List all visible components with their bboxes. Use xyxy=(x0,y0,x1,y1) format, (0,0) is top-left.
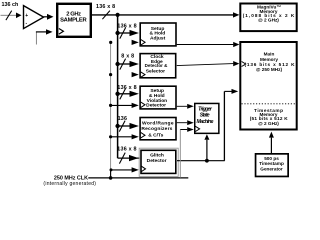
junction tap5 xyxy=(115,124,119,128)
svg-text:Recognizers: Recognizers xyxy=(141,126,172,132)
wire glitch output xyxy=(177,160,225,162)
svg-text:8 x 8: 8 x 8 xyxy=(121,53,134,59)
junction tap3 xyxy=(115,62,119,66)
svg-text:Selector: Selector xyxy=(146,69,165,75)
wire main bus 136x8 xyxy=(92,14,234,16)
wire tap6 elbow xyxy=(118,157,140,159)
svg-text:@ 2 GHz): @ 2 GHz) xyxy=(258,121,279,126)
arrowhead violation to trigger xyxy=(187,104,194,109)
svg-text:(internally generated): (internally generated) xyxy=(43,181,96,187)
wire elbow to memory xyxy=(224,90,231,92)
wire amp to sampler xyxy=(44,16,47,18)
svg-text:Detector &: Detector & xyxy=(145,63,169,68)
junction clock tap adjust xyxy=(109,41,112,44)
arrowhead into MagniVu memory xyxy=(233,12,239,17)
block setup and hold adjust xyxy=(140,23,176,46)
arrowhead into main memory clock xyxy=(233,61,239,66)
op-amp U1 input amplifier xyxy=(24,6,44,29)
junction main bus xyxy=(116,13,120,17)
arrowhead clock adjust xyxy=(132,40,139,45)
svg-text:136 x 8: 136 x 8 xyxy=(117,85,136,91)
wire glitch output up to memory xyxy=(223,91,225,160)
arrowhead word to trigger xyxy=(187,120,194,125)
arrowhead clock glitch xyxy=(132,167,139,172)
wire clock word xyxy=(111,136,132,138)
arrowhead into trigger bottom xyxy=(204,134,209,140)
wire clock glitch vertical xyxy=(110,170,112,178)
junction clock glitch xyxy=(110,168,113,171)
svg-text:& C/Ts: & C/Ts xyxy=(148,133,163,139)
wire vertical data bus xyxy=(117,15,119,158)
svg-text:@ 250 MHz): @ 250 MHz) xyxy=(256,67,283,72)
wire adjust output to main memory xyxy=(177,44,234,46)
junction clock tap edge xyxy=(109,73,112,76)
wire clock glitch horizontal xyxy=(111,169,132,171)
arrowhead into sampler xyxy=(47,14,54,20)
wire tap2 xyxy=(118,32,130,34)
svg-text:Adjust: Adjust xyxy=(150,36,166,42)
arrowhead into main memory data xyxy=(233,42,239,47)
arrowhead trigger clock xyxy=(187,127,194,132)
svg-text:136 x 8: 136 x 8 xyxy=(96,4,115,10)
arrowhead tap2 xyxy=(130,30,139,36)
svg-text:136 ch: 136 ch xyxy=(2,2,19,8)
wire input xyxy=(1,14,17,16)
svg-text:@ 2 GHz): @ 2 GHz) xyxy=(258,18,279,23)
bus slash tap6 xyxy=(119,153,125,164)
sampler box U2 2 GHz SAMPLER xyxy=(57,4,91,37)
block trigger state machine xyxy=(195,103,219,133)
arrowhead clock edge xyxy=(132,72,139,77)
svg-text:136: 136 xyxy=(118,116,128,122)
block glitch detector xyxy=(141,150,176,173)
wire gray clock distribution line xyxy=(110,42,112,178)
junction clock tap violation xyxy=(109,104,112,107)
block clock edge detector and selector xyxy=(140,54,176,78)
arrowhead into amp xyxy=(16,13,22,19)
block main memory xyxy=(240,42,296,130)
svg-text:+: + xyxy=(25,13,28,19)
svg-text:Detector: Detector xyxy=(147,158,167,164)
wire sampler clock stub xyxy=(35,32,37,45)
svg-text:136 x 8: 136 x 8 xyxy=(117,24,136,30)
svg-text:State: State xyxy=(200,112,210,118)
wire word output to trigger xyxy=(177,122,187,124)
svg-text:SAMPLER: SAMPLER xyxy=(60,17,87,23)
svg-text:Machine: Machine xyxy=(197,119,214,125)
block timestamp generator xyxy=(256,154,289,177)
junction clock line xyxy=(109,176,113,180)
junction glitch output to trigger xyxy=(205,159,209,163)
block word range recognizers xyxy=(140,118,176,140)
arrowhead tap3 xyxy=(130,61,139,67)
svg-text:Word/Range: Word/Range xyxy=(142,121,174,127)
svg-text:Detector: Detector xyxy=(146,103,166,109)
junction tap2 xyxy=(115,31,119,35)
divider dotted xyxy=(242,103,296,105)
arrowhead sampler clock xyxy=(46,29,53,34)
arrowhead into timestamp memory xyxy=(232,89,239,94)
wire sampler clock horizontal xyxy=(36,31,46,33)
svg-text:Glitch: Glitch xyxy=(150,152,164,158)
wire 250 MHz clock line xyxy=(88,177,188,179)
bus slash input xyxy=(6,11,12,21)
svg-text:Generator: Generator xyxy=(260,166,283,171)
arrowhead clock word xyxy=(132,134,139,139)
wire tap4 xyxy=(118,93,130,95)
wire violation output to trigger xyxy=(177,105,187,107)
wire gray trigger clock vertical xyxy=(179,130,181,178)
bus slash tap2 xyxy=(120,28,126,39)
arrowhead into memory bottom xyxy=(269,132,274,138)
bus slash tap4 xyxy=(120,88,126,99)
wire up to trigger bottom xyxy=(206,140,208,161)
wire timestamp generator to memory xyxy=(270,138,272,153)
wire clock edge output to main memory clock xyxy=(177,64,234,66)
wire tap3 xyxy=(118,63,130,65)
arrowhead tap5 xyxy=(130,123,139,129)
block setup and hold violation detector xyxy=(140,86,176,109)
arrowhead tap6 xyxy=(129,155,139,161)
wire tap5 xyxy=(118,125,130,127)
glitch halo xyxy=(139,148,178,176)
bus slash tap5 xyxy=(119,121,125,132)
arrowhead tap4 xyxy=(130,91,139,97)
svg-text:136 x 8: 136 x 8 xyxy=(117,147,136,153)
bus slash main xyxy=(102,11,110,20)
wire clock violation xyxy=(111,104,132,106)
arrowhead clock violation xyxy=(132,103,139,108)
junction tap4 xyxy=(115,92,119,96)
block MagniVu memory xyxy=(240,4,296,32)
wire trigger clock horizontal xyxy=(180,129,187,131)
junction clock tap word xyxy=(109,135,112,138)
bus slash tap3 xyxy=(120,59,126,70)
